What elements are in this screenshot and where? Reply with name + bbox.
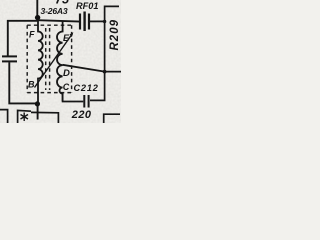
node: bus / filter output junction dot — [103, 20, 106, 23]
paper background — [0, 0, 121, 123]
module box with asterisk — [18, 110, 59, 123]
svg-text:RF01: RF01 — [76, 1, 98, 11]
node: bus / D-tap cross junction dot — [103, 70, 107, 74]
svg-text:D: D — [63, 68, 70, 79]
wire: C terminal to C212 left plate — [63, 94, 84, 102]
wire: top vertical into node — [36, 0, 38, 16]
wire: D tap to right bus — [63, 65, 105, 72]
inductor L2 (right winding E-D-C) — [57, 21, 63, 102]
node A junction dot top — [35, 15, 40, 20]
svg-text:B: B — [28, 80, 35, 90]
svg-text:C: C — [63, 82, 70, 92]
wire: cross arm to right edge — [105, 71, 121, 73]
node B junction dot bottom — [35, 101, 40, 106]
svg-text:3-26A3: 3-26A3 — [41, 6, 68, 16]
svg-text:R209: R209 — [109, 19, 121, 51]
inductor L1 (left winding F-B) — [38, 21, 43, 105]
capacitor (left, tuning) plates — [2, 55, 17, 57]
filter RF01 (crystal symbol) — [80, 12, 105, 32]
ferrite core dashed lines — [46, 28, 50, 90]
svg-text:F: F — [29, 30, 35, 40]
svg-text:220: 220 — [71, 109, 92, 121]
wire: horizontal left from node to corner — [8, 21, 38, 56]
capacitor C212 (plates) — [63, 94, 89, 108]
svg-text:C212: C212 — [74, 83, 99, 93]
module box bottom-left — [0, 110, 8, 123]
asterisk mark — [21, 113, 29, 122]
wire: right vertical bus with top corner and lower corner to C212 — [90, 6, 119, 100]
wire: capacitor lower lead down and right to bottom node — [9, 62, 35, 103]
variometer arrow through windings — [35, 34, 73, 88]
module box bottom-right — [104, 114, 120, 123]
wire: node down into module box — [37, 104, 39, 120]
shield dashed box — [27, 25, 71, 92]
wire: top horizontal from node to filter — [38, 20, 81, 21]
